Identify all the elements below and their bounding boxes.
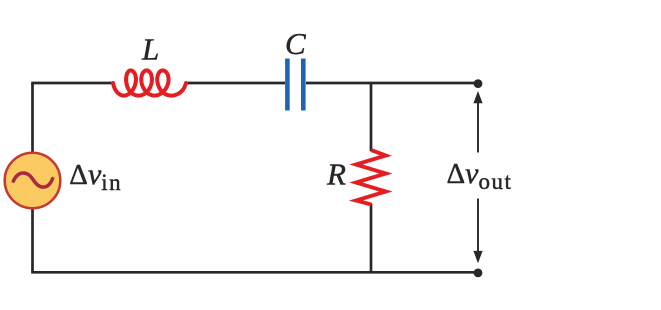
capacitor C: right plate: [301, 59, 306, 111]
node: bottom output terminal: [474, 269, 483, 278]
svg-text:C: C: [285, 26, 306, 61]
arrow: lower, pointing down at bottom terminal: [477, 199, 479, 256]
wire: top rail, left corner to inductor: [31, 82, 113, 85]
svg-text:Δvin: Δvin: [69, 158, 122, 195]
inductor L: [113, 70, 186, 95]
AC source circle: [5, 153, 61, 209]
wire: left vertical, AC source to bottom rail: [31, 209, 34, 272]
wire: top rail, inductor to capacitor: [186, 82, 285, 85]
svg-text:L: L: [141, 32, 159, 67]
svg-text:R: R: [326, 157, 346, 192]
wire: resistor branch, junction down to resistor: [370, 82, 373, 151]
resistor R zigzag: [356, 150, 386, 205]
capacitor C: left plate: [285, 59, 290, 111]
wire: top rail, capacitor past resistor junction to output node: [306, 82, 478, 85]
wire: resistor branch, resistor down to bottom rail: [370, 204, 373, 273]
node: top output terminal: [474, 79, 483, 88]
wire: bottom rail: [31, 271, 478, 274]
arrow: upper, pointing up at top terminal: [477, 101, 479, 153]
AC source sine wave: [13, 173, 52, 187]
svg-text:Δvout: Δvout: [447, 157, 513, 194]
wire: left vertical, top rail to AC source: [31, 83, 34, 152]
